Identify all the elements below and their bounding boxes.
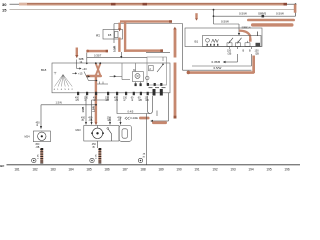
connector label 450/B below M23 (92, 143, 97, 149)
wire highlighted X leg 1 (96, 64, 101, 76)
switch contact B18 (84, 72, 97, 81)
svg-text:196: 196 (284, 168, 290, 172)
wire 30 bus right lead (287, 3, 296, 5)
wire horizontal 57.3 (87, 56, 147, 58)
wire highlighted X leg 2 (96, 64, 101, 76)
svg-text:0.5/W: 0.5/W (214, 66, 222, 70)
svg-text:/2B: /2B (89, 119, 93, 122)
svg-text:B1: B1 (195, 39, 199, 43)
svg-text:/2B: /2B (107, 119, 111, 122)
wire segment with arrow right (110, 63, 131, 79)
wire top run (114, 23, 183, 25)
svg-text:193: 193 (230, 168, 236, 172)
node junction arrow on line (120, 56, 122, 58)
pin ticks above pin boxes (230, 41, 248, 43)
wire highlighted band inside B18 (86, 75, 102, 78)
value label rotated M24 ground (38, 154, 40, 159)
wire 15 branch lower (214, 23, 240, 25)
value label rotated 0.5R (112, 46, 116, 52)
svg-text:194: 194 (248, 168, 254, 172)
svg-text:192: 192 (212, 168, 218, 172)
wire highlighted right edge stub (294, 4, 297, 13)
op-amp U1 unit B1 box (203, 36, 262, 47)
lamp box with indicator (133, 69, 144, 83)
connector box K (147, 57, 167, 85)
svg-text:0.4/4E: 0.4/4E (130, 116, 138, 120)
wire highlighted band right (247, 19, 295, 22)
svg-text:181: 181 (14, 168, 20, 172)
wire black drop under fuse (120, 52, 122, 57)
wire bottom run (183, 69, 252, 71)
wire pin +15 entry (72, 72, 83, 76)
connector label 450/2B below M24 (35, 143, 40, 149)
wire black drop into fuse (113, 24, 115, 43)
wire below M23 (97, 141, 99, 148)
pin squares on B18 bottom (77, 92, 149, 95)
svg-text:188: 188 (140, 168, 146, 172)
svg-text:/2B: /2B (115, 99, 119, 102)
wire tap to salmon (91, 96, 109, 126)
switch contact 2 in B1 (237, 38, 242, 44)
wire highlighted arrow into M23 (95, 122, 98, 125)
wire arrow inside B18 (88, 75, 91, 77)
pin label 450/2B mid (88, 117, 93, 123)
svg-text:0.5/R: 0.5/R (112, 46, 116, 52)
node junction T (213, 15, 215, 17)
svg-text:191: 191 (194, 168, 200, 172)
wire highlighted arc into unit B1 (239, 31, 250, 40)
wire 30 bus thick band (19, 3, 287, 6)
value label rotated M23 ground (96, 154, 98, 159)
unit B18 box (52, 63, 170, 93)
pin label 150/2B (107, 117, 112, 123)
svg-text:B18: B18 (41, 68, 47, 72)
wire highlighted bypass vertical (124, 22, 126, 52)
svg-text:+15: +15 (78, 72, 83, 76)
wire highlighted through pin (249, 39, 252, 42)
wire branch to right edge (214, 15, 296, 17)
wire right edge drop (295, 4, 297, 16)
svg-text:185: 185 (86, 168, 92, 172)
node splice on branch (262, 15, 265, 17)
wire to motor M24 (40, 101, 96, 130)
value label rotated on highlighted wire (93, 106, 96, 112)
wire segment y84 (97, 82, 108, 85)
node junction right corner (295, 3, 297, 5)
pin box 3 (245, 43, 250, 47)
ground bolt M23 (90, 158, 94, 162)
wire 30 bus lead (10, 3, 20, 5)
svg-text:/2B: /2B (228, 52, 232, 55)
connector label S8B14 (242, 26, 251, 30)
ruler corner label (0, 164, 4, 168)
wire branch 0.5/W lower (192, 66, 252, 70)
pin digits row (54, 89, 74, 91)
wire 15 bus (10, 9, 296, 11)
wire top of connector box (146, 51, 170, 53)
svg-text:/2B: /2B (145, 99, 149, 102)
pin tick above dark box (257, 32, 259, 37)
svg-text:BF: BF (0, 164, 4, 168)
transducer fan symbol B18 (54, 72, 72, 86)
svg-text:183: 183 (50, 168, 56, 172)
pin arrows M23 (109, 122, 122, 125)
value label S8B/5 (258, 12, 267, 16)
relay element in connector box (146, 57, 164, 80)
svg-text:0.5/W: 0.5/W (276, 12, 284, 16)
pin label 150/2B right (255, 50, 260, 56)
fuse F8 box A1 (96, 30, 123, 40)
svg-text:A1: A1 (96, 33, 100, 37)
ground wire striped M23 (98, 148, 101, 164)
svg-text:195: 195 (266, 168, 272, 172)
svg-text:+30: +30 (82, 67, 87, 71)
pin box 2 (236, 43, 241, 47)
pin label B2 (249, 50, 251, 53)
svg-text:1.5/R: 1.5/R (93, 106, 96, 112)
svg-text:30: 30 (2, 2, 7, 7)
node junction on box top (95, 62, 97, 64)
svg-text:/2B: /2B (138, 99, 142, 102)
wire ground right (143, 114, 147, 165)
wire corner to arrow (150, 120, 168, 122)
pin marks connector box (147, 83, 163, 86)
pin squares under lamp box (135, 83, 142, 86)
svg-text:/2B: /2B (106, 99, 110, 102)
svg-text:M23: M23 (76, 128, 82, 132)
wire pin drop A (237, 47, 239, 49)
value label 0.4/5 (128, 110, 134, 114)
wire drop from 15 bus (213, 10, 215, 24)
svg-text:0.35/T: 0.35/T (94, 53, 102, 57)
wire lamp feed (134, 63, 136, 71)
pin specks labels (149, 87, 166, 88)
resistor zigzag in B1 (212, 39, 219, 42)
wire highlighted band to B1 (187, 71, 255, 74)
ground wire striped M24 (40, 148, 43, 164)
node 15 bus label (2, 8, 7, 13)
svg-text:/B: /B (92, 146, 95, 149)
svg-text:190: 190 (176, 168, 182, 172)
value label 0.5/W (239, 12, 247, 16)
switch contact 1 in B1 (229, 38, 234, 44)
ruler baseline (7, 164, 301, 166)
svg-text:/B: /B (82, 119, 85, 122)
svg-text:1.5/N: 1.5/N (56, 101, 62, 105)
thick pin bars below (153, 89, 163, 96)
wire branch 0.35/B with arrow (212, 60, 238, 64)
ruler numbers (14, 168, 290, 172)
wire highlighted step band B (152, 121, 167, 124)
node label B18 (41, 68, 47, 72)
wire highlighted fuse output (118, 38, 120, 52)
wire highlighted band right lower (251, 23, 294, 26)
node junction on box top 2 (99, 62, 101, 64)
wire U loop (117, 96, 157, 117)
wire highlighted feed band B (124, 49, 163, 52)
pin box 4 dark (256, 43, 261, 47)
wire highlighted stub into fuse (118, 23, 121, 32)
pin label B (243, 50, 245, 53)
value label 0.35/T (94, 53, 102, 57)
wire drop to unit B1 (238, 24, 240, 36)
fuse element F8 (115, 32, 119, 38)
pin marks in B1 (207, 44, 219, 46)
node dot (96, 80, 98, 82)
svg-text:1.5N: 1.5N (96, 154, 98, 159)
wire pin drop B (251, 47, 253, 49)
value label 0.5/W lower (221, 20, 229, 24)
wire highlighted main vertical (95, 75, 97, 123)
pin label 450/2 (117, 117, 122, 123)
wire highlighted drop B (252, 56, 255, 74)
value label 0.4/4E (130, 116, 138, 120)
wire highlighted band top middle (120, 20, 172, 22)
svg-text:184: 184 (68, 168, 74, 172)
unit B1 outer box (185, 28, 262, 47)
pin stub left (229, 47, 231, 50)
svg-text:S8B/5: S8B/5 (258, 12, 267, 16)
pin label 450/B left (81, 117, 86, 123)
motor M24 box (25, 131, 51, 142)
node junction on B18 top (86, 62, 88, 64)
wire box right edge lower (168, 93, 170, 121)
ground bolt M24 (32, 158, 36, 162)
pin labels under B18 (75, 96, 149, 102)
svg-text:F8: F8 (108, 33, 112, 37)
wire highlighted stub (195, 13, 198, 20)
node label B1 (195, 39, 199, 43)
node junction on 15 bus (213, 9, 215, 11)
svg-text:0.5/W: 0.5/W (239, 12, 247, 16)
svg-text:0.4/5: 0.4/5 (128, 110, 134, 114)
svg-text:187: 187 (122, 168, 128, 172)
wire highlighted right vertical lower (174, 63, 177, 119)
pin box 1 (227, 43, 232, 47)
wire highlighted step band A (139, 117, 150, 120)
svg-text:189: 189 (158, 168, 164, 172)
svg-text:/2B: /2B (36, 146, 40, 149)
svg-text:182: 182 (32, 168, 38, 172)
wire highlighted drop S8B14 (75, 48, 78, 59)
svg-text:15: 15 (2, 8, 7, 13)
connector chevrons (125, 117, 130, 120)
svg-text:M24: M24 (25, 135, 31, 139)
wire highlighted right vertical upper (173, 27, 176, 58)
wire pin +30 entry (77, 60, 88, 71)
svg-text:0.5/W: 0.5/W (221, 20, 229, 24)
wire stub to box top (86, 53, 88, 64)
pin stubs M23 (110, 117, 121, 122)
wire down from pin 86 (82, 96, 87, 126)
svg-text:0.35/B: 0.35/B (212, 60, 221, 64)
svg-text:1.5/B: 1.5/B (82, 107, 85, 113)
svg-text:1.5N: 1.5N (38, 154, 40, 159)
ground bolt right (138, 158, 142, 162)
wire left riser (182, 24, 184, 71)
value label 0.5/W right (276, 12, 284, 16)
node 30 bus label (2, 2, 7, 7)
pin label 150/2B left (227, 50, 232, 56)
connector label S8B 14 (79, 57, 84, 64)
wire highlighted feed band A (86, 50, 108, 53)
connector label 450/2 (36, 122, 41, 128)
lamp symbol in B1 (206, 38, 210, 42)
svg-text:186: 186 (104, 168, 110, 172)
heater loops (119, 126, 131, 142)
motor M23 box (76, 126, 120, 142)
node junction on highlighted wire (95, 104, 97, 106)
svg-text:/2B: /2B (255, 52, 259, 55)
